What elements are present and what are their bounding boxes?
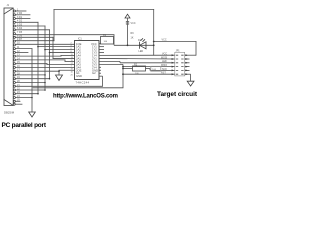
svg-text:MOSI: MOSI [161, 56, 167, 59]
svg-text:DB25/M: DB25/M [4, 111, 15, 115]
svg-text:9 D7: 9 D7 [17, 38, 23, 41]
svg-text:4 D2: 4 D2 [17, 20, 23, 23]
svg-text:SCK: SCK [162, 68, 167, 71]
svg-text:RST: RST [161, 72, 166, 75]
svg-text:G2: G2 [92, 71, 96, 75]
svg-text:LED: LED [139, 50, 144, 53]
svg-text:LED: LED [162, 60, 167, 63]
svg-text:PC parallel port: PC parallel port [2, 122, 47, 129]
svg-text:2 D0: 2 D0 [17, 12, 23, 15]
svg-text:7 D5: 7 D5 [17, 31, 23, 34]
svg-text:74HC244: 74HC244 [76, 81, 90, 85]
svg-text:3 D1: 3 D1 [17, 16, 23, 19]
svg-text:VCC: VCC [162, 53, 167, 56]
svg-text:GND: GND [76, 74, 82, 78]
svg-text:IC1: IC1 [78, 38, 82, 41]
svg-text:VCC: VCC [131, 22, 136, 25]
svg-text:MISO: MISO [161, 64, 167, 67]
svg-text:5 D3: 5 D3 [17, 23, 23, 26]
svg-text:VCC: VCC [162, 39, 167, 42]
svg-text:Target circuit: Target circuit [157, 91, 198, 98]
svg-text:1K: 1K [131, 37, 134, 40]
svg-text:http://www.LancOS.com: http://www.LancOS.com [53, 93, 118, 99]
svg-text:JP1: JP1 [176, 49, 181, 52]
svg-text:6 D4: 6 D4 [17, 27, 23, 30]
